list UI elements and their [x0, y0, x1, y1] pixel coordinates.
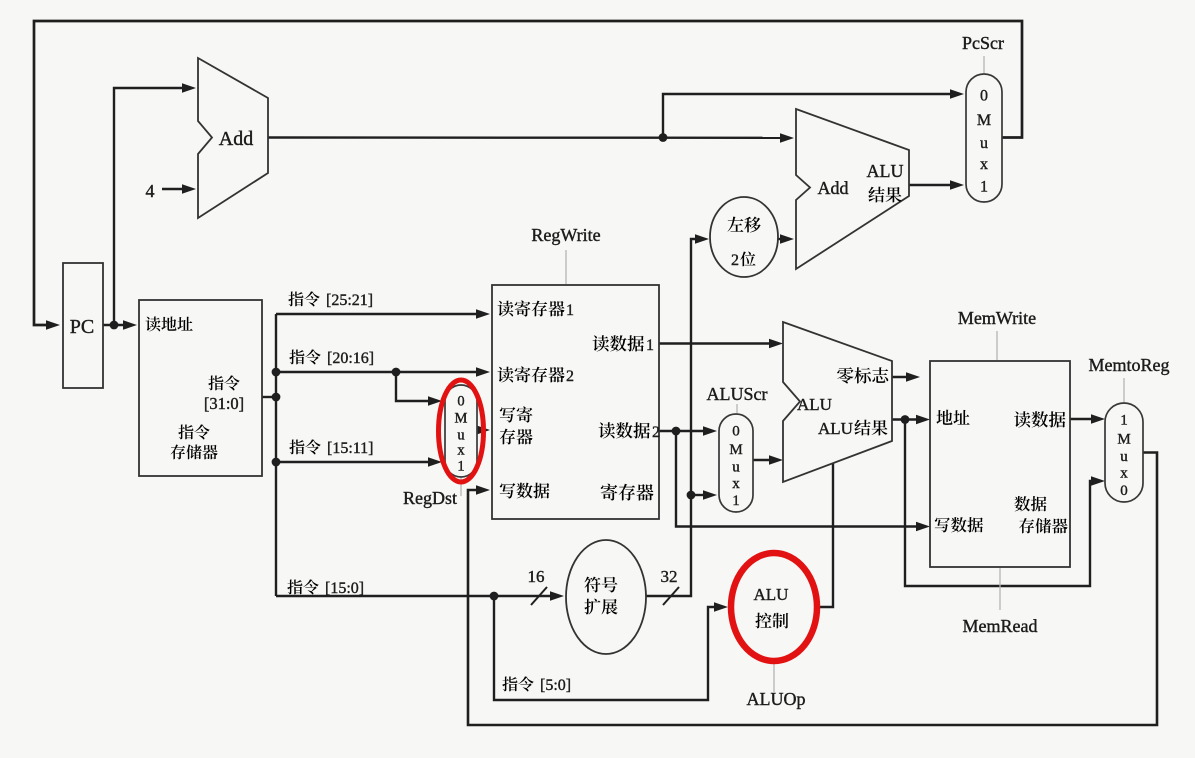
op-amp Add (branch target adder) — [796, 109, 909, 269]
svg-text:1: 1 — [457, 459, 464, 475]
annotation red ellipse around ALU control — [731, 553, 817, 661]
svg-text:u: u — [1120, 449, 1128, 465]
svg-text:0: 0 — [980, 88, 988, 105]
wire data memory read data to MemtoReg mux input 1 — [1070, 418, 1094, 420]
wire PC-feedback loop from PcScr mux output to PC input — [34, 21, 1022, 325]
svg-text:ALUScr: ALUScr — [707, 384, 768, 404]
node ALU result junction — [901, 415, 910, 424]
svg-text:0: 0 — [457, 393, 464, 409]
wire PC output to instruction memory read-address — [103, 324, 126, 326]
wire sign-extend branch to ALUScr mux input 1 — [691, 494, 706, 496]
label instruction [15:0] — [287, 579, 302, 594]
svg-text:PcScr: PcScr — [962, 33, 1004, 53]
svg-text:x: x — [1120, 466, 1128, 482]
block PC register — [63, 263, 103, 388]
mux RegDst (0/1) — [445, 385, 477, 477]
wire MemtoReg control stub — [1123, 378, 1125, 402]
svg-text:M: M — [1117, 431, 1130, 447]
wire PC output branch up to Add input — [114, 88, 184, 325]
svg-text:1: 1 — [1120, 413, 1128, 429]
wire RegDst mux output to write register — [477, 429, 479, 431]
block shift left 2 — [710, 197, 778, 277]
wire read data 2 to ALUScr mux input 0 — [659, 430, 706, 432]
mux ALUScr (0/1) — [719, 414, 753, 512]
label instruction [20:16] — [289, 349, 304, 364]
svg-text:[15:0]: [15:0] — [325, 580, 364, 597]
svg-text:0: 0 — [1120, 483, 1128, 499]
svg-text:M: M — [455, 411, 468, 427]
svg-text:1: 1 — [732, 493, 740, 509]
svg-text:[5:0]: [5:0] — [540, 677, 571, 694]
wire MemWrite control stub — [996, 331, 998, 360]
svg-text:M: M — [729, 442, 742, 458]
wire ALUScr mux output to ALU input — [753, 459, 772, 461]
svg-text:[20:16]: [20:16] — [327, 350, 374, 367]
wire ALU result around data memory to MemtoReg mux input 0 — [905, 420, 1094, 587]
wire instruction [31:0] from instruction memory to trunk — [262, 396, 276, 398]
mux PcScr (0/1) — [966, 74, 1002, 202]
svg-text:x: x — [457, 442, 465, 458]
label instruction [25:21] — [288, 291, 303, 306]
svg-text:16: 16 — [528, 567, 545, 586]
label instruction [15:11] — [289, 439, 304, 454]
node [20:16] branch junction — [392, 368, 401, 377]
label instruction [5:0] — [502, 676, 517, 691]
block sign extend — [566, 540, 646, 654]
node instruction output junction — [272, 393, 281, 402]
block register file — [492, 285, 659, 519]
wire constant 4 into Add — [162, 188, 184, 190]
node PC output junction — [110, 321, 119, 330]
svg-text:u: u — [732, 460, 740, 476]
svg-text:MemtoReg: MemtoReg — [1089, 355, 1170, 375]
svg-text:[31:0]: [31:0] — [204, 394, 244, 413]
svg-text:ALU: ALU — [818, 419, 853, 438]
wire read data 2 branch to data memory write data — [676, 431, 919, 527]
wire instruction [25:21] to read register 1 — [276, 313, 479, 315]
svg-text:ALU: ALU — [754, 585, 789, 604]
svg-text:RegDst: RegDst — [403, 488, 457, 508]
wire ALUScr control stub — [736, 404, 738, 413]
wire instruction [20:16] to read register 2 — [276, 371, 479, 373]
wire PC+4 branch to PcScr mux input 0 — [663, 94, 953, 138]
wire bus width 16 slash — [531, 587, 547, 605]
wire [20:16] branch down to RegDst mux input 0 — [396, 372, 430, 401]
wire instruction [15:11] to RegDst mux input 1 — [276, 461, 430, 463]
node [15:0] junction — [490, 592, 499, 601]
op-amp Add (PC+4 adder) — [198, 58, 268, 218]
svg-text:ALUOp: ALUOp — [747, 689, 806, 709]
node sign-extend output junction — [687, 491, 696, 500]
wire ALU control output to ALU — [817, 461, 833, 607]
svg-text:2: 2 — [652, 424, 660, 441]
svg-text:1: 1 — [980, 179, 988, 196]
wire ALUOp control stub — [773, 663, 775, 692]
svg-text:1: 1 — [566, 302, 574, 319]
wire ALU zero flag output — [892, 376, 909, 378]
mux MemtoReg (1/0) — [1105, 403, 1143, 502]
wire bus width 32 slash — [663, 587, 679, 605]
svg-text:x: x — [732, 476, 740, 492]
svg-text:[25:21]: [25:21] — [326, 292, 373, 309]
block data memory — [930, 361, 1070, 567]
block instruction memory — [139, 300, 262, 476]
wire ALU result to data memory address — [892, 418, 919, 420]
wire sign extend output — [646, 239, 698, 596]
op-amp ALU (main ALU) — [783, 322, 892, 482]
svg-text:MemWrite: MemWrite — [958, 308, 1036, 328]
svg-text:MemRead: MemRead — [963, 616, 1038, 636]
svg-text:M: M — [977, 112, 991, 129]
wire branch Add result to PcScr mux input 1 — [909, 184, 953, 186]
svg-text:4: 4 — [146, 181, 155, 201]
wire MemtoReg mux output write-back to register write data — [468, 453, 1157, 726]
wire PcScr control stub — [983, 56, 985, 73]
svg-text:2: 2 — [566, 368, 574, 385]
svg-text:ALU: ALU — [867, 161, 904, 181]
svg-text:1: 1 — [646, 337, 654, 354]
node read-data-2 junction — [672, 427, 681, 436]
svg-text:Add: Add — [818, 178, 849, 198]
node trunk junction at [15:11] — [272, 458, 281, 467]
svg-text:2: 2 — [731, 252, 739, 269]
svg-text:PC: PC — [70, 316, 94, 338]
svg-text:RegWrite: RegWrite — [531, 225, 600, 245]
svg-text:Add: Add — [219, 128, 253, 150]
wire instruction [15:0] to sign extend — [276, 595, 553, 597]
wire RegDst control stub — [460, 478, 462, 496]
wire read data 1 to ALU input — [659, 342, 772, 344]
svg-text:ALU: ALU — [797, 395, 832, 414]
svg-text:u: u — [457, 427, 464, 443]
wire RegWrite control stub — [565, 250, 567, 284]
node trunk junction at [20:16] — [272, 368, 281, 377]
svg-text:[15:11]: [15:11] — [327, 440, 374, 457]
wire MemRead control stub — [999, 568, 1001, 610]
annotation red ellipse around RegDst mux — [439, 380, 484, 482]
svg-text:0: 0 — [732, 423, 740, 439]
wire PC+4 from Add output to branch Add input — [268, 136, 783, 139]
svg-text:32: 32 — [661, 567, 678, 586]
node PC+4 junction — [659, 133, 668, 142]
svg-text:x: x — [980, 156, 988, 173]
wire instruction trunk vertical — [275, 314, 277, 596]
svg-text:u: u — [980, 135, 988, 152]
wire instruction [5:0] to ALU control — [494, 596, 717, 700]
wire shift-left-2 output to branch Add — [777, 238, 783, 240]
